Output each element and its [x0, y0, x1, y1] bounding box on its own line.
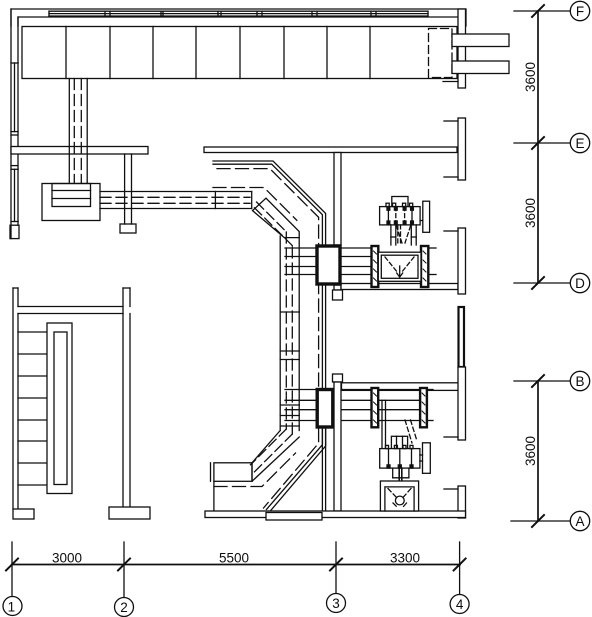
svg-text:3600: 3600: [523, 198, 538, 228]
svg-text:3: 3: [332, 596, 340, 611]
svg-text:5500: 5500: [219, 550, 249, 565]
svg-text:A: A: [575, 514, 584, 529]
svg-text:4: 4: [456, 597, 464, 612]
svg-text:2: 2: [120, 600, 128, 615]
svg-text:3300: 3300: [390, 550, 420, 565]
svg-text:1: 1: [8, 599, 16, 614]
svg-text:E: E: [575, 136, 584, 151]
svg-text:3600: 3600: [523, 62, 538, 92]
svg-text:3000: 3000: [52, 550, 82, 565]
svg-text:F: F: [576, 4, 584, 19]
svg-text:3600: 3600: [523, 436, 538, 466]
svg-text:B: B: [575, 374, 584, 389]
svg-text:D: D: [575, 276, 585, 291]
